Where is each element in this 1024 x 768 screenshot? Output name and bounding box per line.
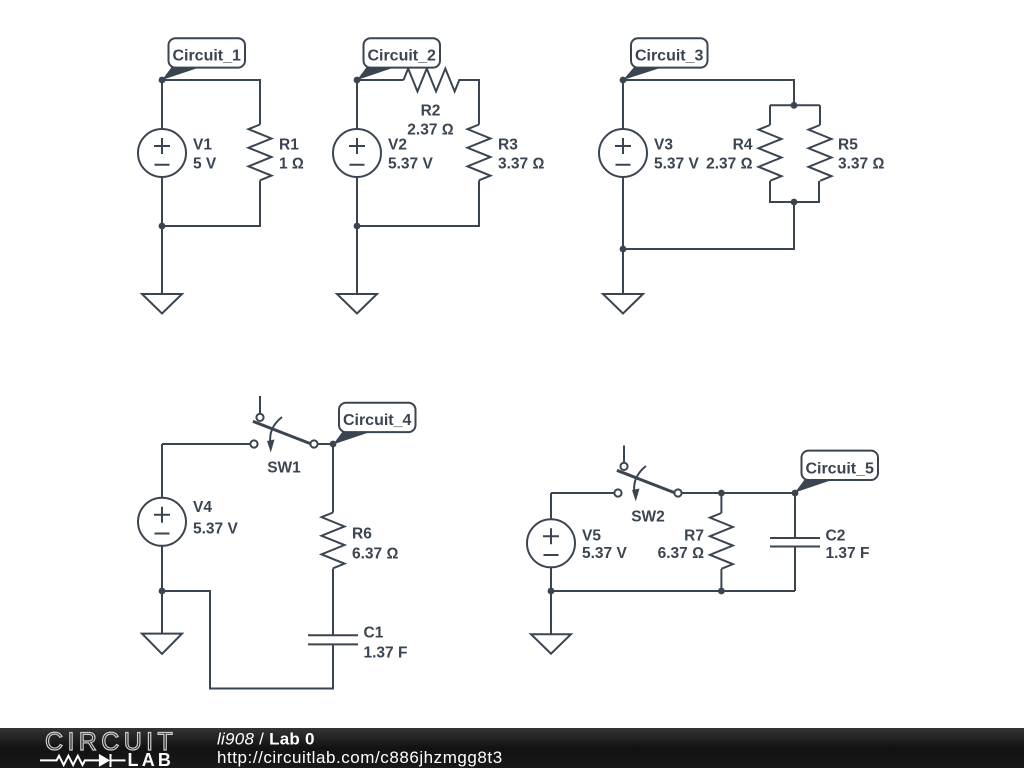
- svg-text:SW2: SW2: [631, 509, 665, 526]
- svg-text:li908 / Lab 0: li908 / Lab 0: [217, 730, 315, 749]
- svg-text:C2: C2: [826, 528, 846, 545]
- svg-text:R6: R6: [352, 526, 372, 543]
- svg-text:V3: V3: [654, 137, 673, 154]
- svg-text:Circuit_1: Circuit_1: [172, 47, 241, 64]
- svg-text:Circuit_3: Circuit_3: [635, 47, 704, 64]
- svg-text:5.37 V: 5.37 V: [654, 156, 699, 173]
- svg-text:1.37 F: 1.37 F: [826, 545, 870, 562]
- svg-text:Circuit_4: Circuit_4: [343, 412, 412, 429]
- svg-text:3.37 Ω: 3.37 Ω: [838, 156, 884, 173]
- svg-text:6.37 Ω: 6.37 Ω: [658, 545, 704, 562]
- svg-text:5 V: 5 V: [193, 156, 217, 173]
- svg-text:Circuit_2: Circuit_2: [367, 47, 436, 64]
- svg-text:V5: V5: [582, 528, 601, 545]
- svg-text:Circuit_5: Circuit_5: [805, 460, 874, 477]
- svg-text:LAB: LAB: [128, 750, 175, 768]
- svg-text:3.37 Ω: 3.37 Ω: [498, 156, 544, 173]
- svg-text:V1: V1: [193, 137, 212, 154]
- svg-text:R3: R3: [498, 137, 518, 154]
- svg-text:5.37 V: 5.37 V: [582, 545, 627, 562]
- svg-text:5.37 V: 5.37 V: [193, 521, 238, 538]
- svg-text:V2: V2: [388, 137, 407, 154]
- svg-text:SW1: SW1: [267, 460, 301, 477]
- svg-text:http://circuitlab.com/c886jhzm: http://circuitlab.com/c886jhzmgg8t3: [217, 748, 503, 767]
- svg-text:R2: R2: [421, 103, 441, 120]
- svg-text:R5: R5: [838, 137, 858, 154]
- svg-text:1.37 F: 1.37 F: [364, 645, 408, 662]
- svg-text:1 Ω: 1 Ω: [279, 156, 304, 173]
- svg-text:2.37 Ω: 2.37 Ω: [706, 156, 752, 173]
- svg-text:V4: V4: [193, 499, 212, 516]
- svg-text:R4: R4: [733, 137, 753, 154]
- svg-text:6.37 Ω: 6.37 Ω: [352, 546, 398, 563]
- svg-text:5.37 V: 5.37 V: [388, 156, 433, 173]
- svg-text:2.37 Ω: 2.37 Ω: [407, 122, 453, 139]
- svg-text:R7: R7: [684, 528, 704, 545]
- svg-text:C1: C1: [364, 625, 384, 642]
- svg-text:R1: R1: [279, 137, 299, 154]
